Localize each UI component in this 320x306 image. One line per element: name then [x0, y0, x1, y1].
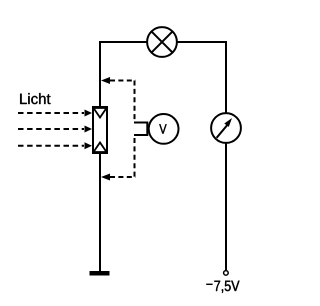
photocell (light-sensitive element, rectangle with two triangles) [93, 107, 107, 153]
ground [90, 271, 110, 276]
wire: right vertical branch (meter branch) [225, 41, 227, 271]
wire: top horizontal from left branch to right branch [99, 41, 227, 43]
label Licht [20, 93, 50, 104]
ammeter M (circle with needle arrow) [211, 113, 241, 143]
wire: left vertical branch (photocell branch) [99, 41, 101, 271]
voltmeter V (circle with V) [147, 114, 178, 144]
dashed measuring bracket: bottom arrow into node below photocell [101, 174, 136, 181]
light ray arrow 1 [18, 110, 92, 117]
label -7,5V [206, 283, 212, 285]
terminal -7,5V (open circle) [224, 271, 229, 276]
light ray arrow 3 [18, 142, 92, 149]
light ray arrow 2 [18, 126, 92, 133]
voltmeter V leads [134, 123, 148, 136]
dashed measuring bracket: top arrow into node above photocell [101, 77, 136, 84]
dashed measuring bracket: right vertical dashed run [134, 81, 136, 121]
lamp E1 (circle with X) [147, 27, 177, 57]
